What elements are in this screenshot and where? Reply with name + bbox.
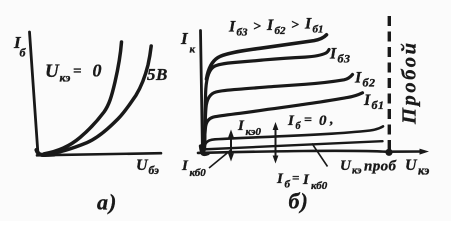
y-axis Iб [30,32,39,155]
label Iб=Iкб0 with leader [276,170,328,192]
svg-text:5В: 5В [147,65,168,84]
node dot at Uкэ проб [385,149,392,156]
curve Iб3 [205,50,330,149]
label Iб=0 [287,113,334,133]
label Iб3>Iб2>Iб1 (top) [228,16,324,39]
svg-text:>: > [291,18,299,33]
svg-text:0: 0 [319,113,327,129]
svg-text:б2: б2 [363,76,376,90]
svg-text:I: I [237,118,245,134]
label Iкэ0 [237,118,261,138]
label Iкб0 with leader [181,158,206,179]
svg-text:б): б) [289,189,309,214]
svg-text:,: , [329,113,334,128]
svg-text:I: I [302,172,310,188]
label Iб1 [363,92,385,112]
leader line Iкб0 [209,150,232,169]
curve Uкэ=0 [44,42,122,154]
svg-text:I: I [363,92,371,109]
measuring arrow (left, at x=231) [228,130,234,162]
curve 5В [46,46,151,154]
svg-text:б2: б2 [275,25,286,37]
svg-text:кэ: кэ [418,164,429,178]
svg-text:б1: б1 [313,24,324,36]
svg-text:а): а) [97,190,117,215]
svg-text:б: б [20,46,27,60]
y-axis Iк [201,31,203,155]
curve Iб2 [205,75,353,150]
svg-text:б1: б1 [372,98,385,112]
svg-text:кб0: кб0 [311,180,328,192]
label Uкэ (x-axis) [405,157,429,178]
svg-text:проб: проб [364,159,397,175]
svg-text:I: I [287,113,295,129]
svg-text:U: U [340,158,352,174]
svg-text:б3: б3 [237,27,248,39]
label Uкэ=0 [45,61,102,85]
label Iк (y-axis) [180,29,196,56]
svg-text:Пробой: Пробой [399,40,421,125]
x-axis arrowhead [420,149,430,155]
svg-text:I: I [276,171,284,187]
measuring arrow (right, at x=275.5) [273,122,279,164]
svg-text:U: U [136,157,149,174]
svg-text:=: = [304,113,312,128]
curve Iб1 [204,93,363,151]
leader line Iб=-Iкб0 [312,144,328,167]
svg-text:кэ: кэ [60,71,71,85]
svg-text:кб0: кб0 [190,167,207,179]
svg-text:кэ: кэ [352,166,362,177]
svg-text:I: I [354,70,362,87]
label Iб2 [354,70,376,90]
svg-text:=: = [292,170,299,185]
svg-text:бэ: бэ [149,165,160,177]
svg-text:I: I [266,17,274,34]
label Uкэ проб [340,158,397,177]
svg-text:б3: б3 [338,52,351,66]
origin blob (а) [37,150,55,155]
svg-text:I: I [304,16,312,33]
line Iб=-Iкб0 [201,141,383,149]
svg-text:кэ0: кэ0 [246,126,262,138]
svg-text:I: I [181,158,189,174]
x-axis Uбэ [37,153,161,155]
label Iб (y-axis) [13,33,27,60]
svg-text:I: I [329,46,337,63]
origin blob (б) [201,146,209,154]
label Iб3 [329,46,351,66]
svg-text:U: U [405,157,418,174]
underline swoosh below top label [207,35,327,79]
curve Iб=0 [203,126,383,151]
svg-text:I: I [228,19,236,36]
label Uбэ (x-axis) [136,157,159,177]
svg-text:U: U [45,61,60,82]
dashed breakdown line [388,16,391,150]
svg-text:>: > [253,20,261,35]
svg-text:к: к [190,44,196,56]
svg-text:0: 0 [93,61,102,81]
svg-text:=: = [73,64,82,80]
x-axis Uкэ [198,151,424,153]
